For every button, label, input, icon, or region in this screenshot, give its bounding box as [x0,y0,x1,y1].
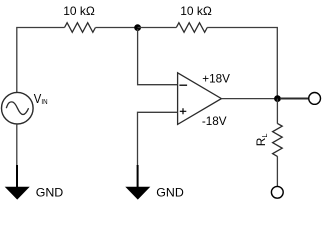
resistor RL [273,123,283,156]
output node junction dot [274,95,281,102]
svg-text:+18V: +18V [202,73,230,86]
op-amp non-inverting input plus sign [180,108,187,114]
wire from V1 top up and right to R1 left lead [17,28,65,94]
output terminal open circle [309,93,321,105]
svg-text:-18V: -18V [202,115,227,128]
wire op-amp non-inverting input left then down to GND2 [138,112,178,166]
svg-text:10 kΩ: 10 kΩ [180,4,212,18]
svg-text:10 kΩ: 10 kΩ [63,4,95,18]
wire op-amp output to output node [221,98,275,100]
op-amp inverting input minus sign [179,84,187,86]
ground GND2 symbol [125,165,150,200]
op-amp U1 triangle [178,73,222,125]
wire output node down to RL top lead [276,99,278,124]
svg-text:GND: GND [156,185,184,199]
wire node A to R2 left lead [138,27,177,29]
ground GND1 symbol [5,165,30,200]
wire R2 right lead right then down to output node [207,28,277,96]
wire output node to output terminal [280,98,308,100]
wire RL bottom lead to lower terminal [276,156,278,186]
AC source V1 circle [1,92,33,124]
wire V1 bottom down to GND1 [16,124,18,166]
node A junction dot [134,24,141,31]
wire R1 right lead to node A [96,27,138,29]
wire node A down to op-amp inverting input [138,29,177,85]
resistor R1 [65,23,96,33]
AC source V1 sine wave [6,102,28,115]
resistor R2 [176,23,207,33]
svg-text:GND: GND [36,185,64,199]
lower terminal open circle [271,186,283,198]
